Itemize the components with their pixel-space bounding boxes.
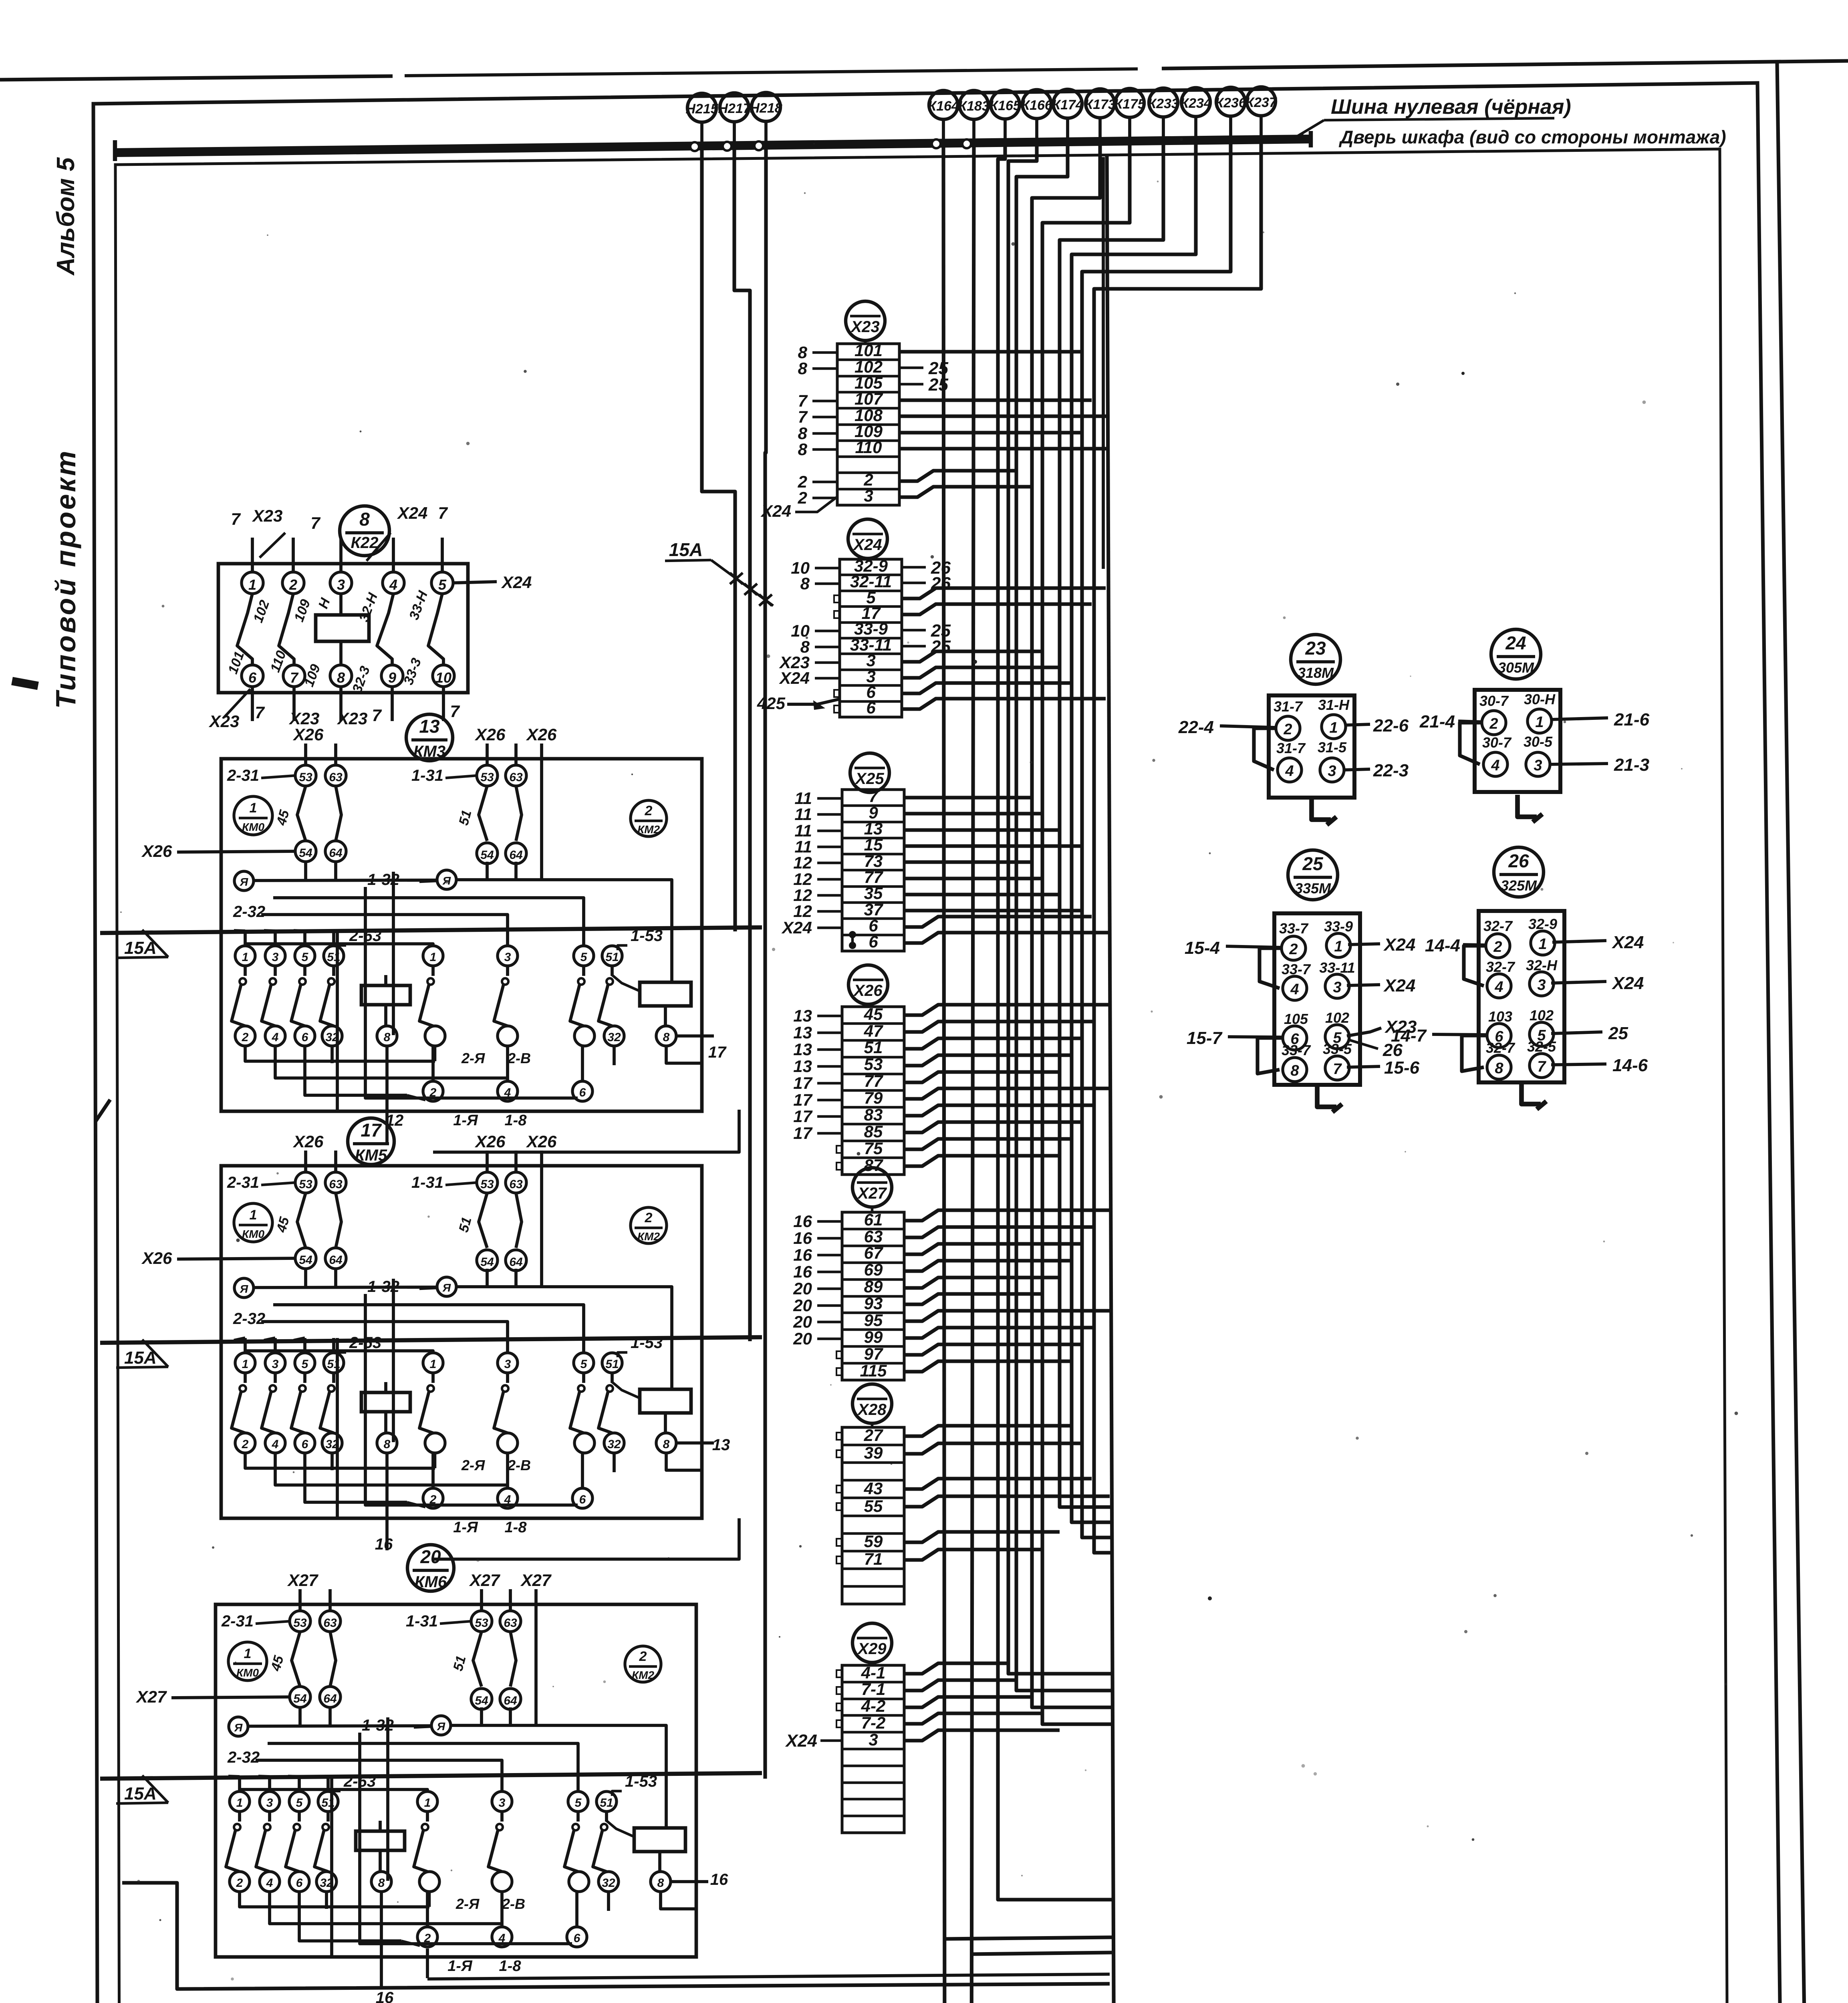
- svg-text:7: 7: [290, 669, 299, 686]
- svg-text:X26: X26: [475, 1132, 506, 1151]
- svg-text:К174: К174: [1052, 97, 1083, 113]
- wire trunk divider branch: [1102, 157, 1105, 569]
- terminal circle К233: [1149, 88, 1178, 117]
- terminal circle К237: [1247, 87, 1276, 116]
- svg-text:13: 13: [793, 1057, 812, 1076]
- svg-text:75: 75: [864, 1139, 883, 1158]
- X28 clamp mark: [836, 1485, 842, 1493]
- wire: [899, 487, 1032, 497]
- svg-text:1-8: 1-8: [499, 1958, 522, 1975]
- wire: [904, 844, 1082, 848]
- bus tap circle К164: [932, 139, 941, 148]
- svg-text:25: 25: [1608, 1024, 1628, 1043]
- connector 24 (305М): [1475, 690, 1560, 792]
- K22 contact diagonals: [237, 594, 252, 665]
- ground hook: [1517, 795, 1537, 817]
- X23 left cable label 2: [812, 481, 837, 484]
- svg-text:11: 11: [794, 805, 812, 824]
- X23 left cable label 8: [812, 367, 837, 370]
- X25 junction dots: [849, 931, 856, 938]
- svg-text:43: 43: [864, 1479, 883, 1498]
- paper edge right: [1777, 62, 1812, 2003]
- svg-text:32-7: 32-7: [1483, 918, 1513, 934]
- svg-text:16: 16: [793, 1212, 812, 1231]
- X27 left cable label 16: [817, 1237, 842, 1240]
- wire: [904, 796, 1032, 799]
- svg-text:3: 3: [869, 1730, 878, 1749]
- X29 clamp mark: [836, 1720, 842, 1727]
- bus right end tick: [1309, 131, 1313, 147]
- paper edge (top, partially dashed): [0, 76, 393, 80]
- svg-text:14-4: 14-4: [1425, 936, 1460, 955]
- X24 left cable label 10: [815, 630, 840, 633]
- svg-text:32-Н: 32-Н: [356, 590, 381, 624]
- terminal circle К166: [1022, 90, 1051, 119]
- connector 26 (325М): [1479, 911, 1564, 1082]
- svg-text:59: 59: [864, 1532, 883, 1551]
- svg-text:305М: 305М: [1498, 659, 1534, 676]
- wire: [899, 471, 1016, 481]
- wire: [904, 828, 1060, 832]
- svg-text:425: 425: [757, 694, 786, 713]
- svg-text:К164: К164: [928, 99, 959, 114]
- wire: [902, 604, 1092, 615]
- K22 contact 5: [431, 572, 453, 594]
- terminal strip X25 table: [842, 790, 904, 951]
- connector 26 leads: [1463, 945, 1486, 945]
- svg-text:КМ5: КМ5: [355, 1147, 387, 1164]
- svg-text:105: 105: [1284, 1011, 1308, 1027]
- terminal strip X25 designator: [850, 753, 889, 792]
- wire: [904, 1479, 1092, 1489]
- svg-text:33-7: 33-7: [1279, 920, 1309, 937]
- wire: [904, 1261, 1072, 1271]
- X26 clamp mark: [836, 1146, 842, 1153]
- X23 left cable label 2: [812, 497, 837, 500]
- margin tick mark: [12, 681, 38, 686]
- svg-text:32-7: 32-7: [1486, 959, 1515, 975]
- svg-text:7-1: 7-1: [861, 1680, 886, 1699]
- svg-text:X27: X27: [469, 1571, 500, 1590]
- svg-text:25: 25: [1302, 853, 1324, 874]
- svg-text:21-3: 21-3: [1614, 755, 1649, 775]
- svg-text:Альбом 5: Альбом 5: [52, 157, 80, 276]
- wire: [904, 1227, 1094, 1237]
- svg-text:X26: X26: [141, 842, 172, 860]
- svg-text:20: 20: [420, 1546, 441, 1567]
- svg-text:КМ3: КМ3: [413, 743, 445, 760]
- svg-text:9: 9: [388, 669, 396, 686]
- X24 right label 26: [902, 566, 926, 569]
- svg-text:Дверь шкафа (вид со стороны мо: Дверь шкафа (вид со стороны монтажа): [1338, 127, 1726, 147]
- svg-text:335М: 335М: [1295, 880, 1331, 897]
- X27 left cable label 16: [817, 1271, 842, 1274]
- svg-text:7: 7: [310, 514, 320, 532]
- svg-text:8: 8: [798, 440, 808, 459]
- wire: [899, 447, 1110, 450]
- svg-text:12: 12: [793, 902, 812, 921]
- wire К173 to bus: [1098, 118, 1102, 141]
- wire: [904, 1550, 1042, 1560]
- svg-text:95: 95: [864, 1311, 883, 1330]
- svg-text:15-4: 15-4: [1185, 938, 1220, 958]
- svg-text:X26: X26: [475, 725, 506, 744]
- svg-text:1: 1: [248, 576, 256, 593]
- X24 left cable label X23: [815, 661, 840, 664]
- svg-text:Н217: Н217: [718, 101, 751, 116]
- X26 left cable label 17: [817, 1099, 842, 1102]
- bus tap circle Н218: [754, 141, 763, 150]
- wire: [904, 1663, 1008, 1674]
- svg-text:6: 6: [869, 932, 878, 951]
- svg-text:X26: X26: [853, 982, 883, 999]
- svg-text:14-7: 14-7: [1391, 1026, 1427, 1046]
- bus tap circle К183: [962, 139, 971, 148]
- X26 clamp mark: [836, 1163, 842, 1170]
- wire: [904, 917, 1092, 927]
- svg-text:12: 12: [793, 853, 812, 872]
- wire К165 trunk: [998, 143, 1112, 1900]
- svg-text:71: 71: [864, 1550, 883, 1568]
- wire: [899, 414, 1110, 418]
- wire: [904, 1156, 1060, 1166]
- zero bus (Шина нулевая, чёрная): [115, 139, 1311, 153]
- X27 left cable label 20: [817, 1338, 842, 1340]
- K22 contact 4: [383, 572, 404, 594]
- svg-text:16: 16: [793, 1229, 812, 1247]
- wire: [904, 909, 1082, 912]
- svg-text:4: 4: [389, 576, 397, 593]
- svg-text:17: 17: [361, 1120, 382, 1141]
- svg-text:1-31: 1-31: [411, 1174, 443, 1191]
- terminal circle К174: [1053, 89, 1082, 118]
- svg-text:1-53: 1-53: [631, 1334, 663, 1352]
- wire К174 trunk: [1016, 142, 1112, 1691]
- svg-text:X28: X28: [857, 1401, 887, 1419]
- wire: [904, 1022, 1094, 1032]
- terminal circle К175: [1115, 89, 1144, 117]
- relay K22 block: [218, 564, 468, 693]
- wire КМ5 bottom link: [433, 1518, 739, 1559]
- svg-text:X24: X24: [1383, 976, 1415, 995]
- wire КМ3 bottom link: [433, 1110, 739, 1152]
- cabinet divider wall: [1107, 155, 1114, 2003]
- svg-text:51: 51: [864, 1038, 883, 1057]
- svg-text:79: 79: [864, 1088, 883, 1107]
- svg-text:89: 89: [864, 1277, 883, 1296]
- leader arrow to bus: [1294, 120, 1324, 138]
- svg-text:1-53: 1-53: [631, 927, 663, 945]
- svg-text:102: 102: [250, 598, 272, 625]
- 15А feed line КМ3: [100, 927, 762, 933]
- svg-text:77: 77: [864, 1072, 883, 1090]
- svg-text:6: 6: [866, 698, 876, 717]
- svg-text:К22: К22: [351, 534, 378, 552]
- wire К233 trunk: [1060, 141, 1163, 1507]
- wire: [904, 1426, 1072, 1436]
- wire К236 to bus: [1229, 116, 1232, 140]
- wire Н217 down, step, down to 15А line (КМ5): [734, 145, 750, 1341]
- wire: [904, 1139, 1072, 1149]
- X27 left cable label 16: [817, 1220, 842, 1223]
- X24 clamp mark: [834, 611, 840, 618]
- svg-text:13: 13: [793, 1006, 812, 1025]
- svg-text:102: 102: [1325, 1010, 1349, 1026]
- wire: [904, 1730, 1060, 1741]
- X29 clamp mark: [836, 1670, 842, 1677]
- svg-text:2: 2: [289, 576, 297, 593]
- svg-text:32-9: 32-9: [1528, 916, 1557, 932]
- X23 right label 25: [899, 367, 923, 369]
- svg-text:45: 45: [864, 1005, 883, 1024]
- connector 23 (318М): [1269, 695, 1354, 798]
- svg-text:102: 102: [1530, 1007, 1554, 1024]
- X27 clamp mark: [836, 1368, 842, 1375]
- X24 clamp mark: [834, 690, 840, 697]
- X27 left cable label 16: [817, 1254, 842, 1257]
- svg-text:17: 17: [793, 1124, 812, 1143]
- svg-text:К165: К165: [989, 98, 1021, 113]
- svg-text:X24: X24: [501, 573, 532, 592]
- connector 23 left bracket: [1254, 728, 1276, 770]
- svg-text:21-6: 21-6: [1614, 710, 1650, 729]
- K22 contact 3: [330, 572, 352, 594]
- wire: [902, 651, 1042, 662]
- svg-text:31-7: 31-7: [1274, 698, 1303, 715]
- КМ5 15А taps: [234, 1338, 245, 1340]
- X25 left cable label 11: [817, 813, 842, 816]
- svg-text:X24: X24: [1611, 933, 1644, 952]
- svg-text:X24: X24: [785, 1731, 817, 1751]
- terminal strip X27 table: [842, 1212, 904, 1380]
- svg-text:16: 16: [793, 1262, 812, 1281]
- K22 contact 8: [330, 665, 352, 687]
- wire: [904, 1278, 1060, 1288]
- svg-text:X23: X23: [850, 318, 879, 336]
- X24 left cable label X24: [815, 677, 840, 680]
- svg-text:22-3: 22-3: [1373, 761, 1409, 780]
- wire: [904, 1697, 1032, 1707]
- wire: [904, 1713, 1042, 1724]
- svg-text:110: 110: [855, 438, 882, 457]
- connector 24 leads: [1458, 721, 1482, 722]
- КМ6 bottom exit: [380, 1967, 383, 1989]
- wire: [904, 1038, 1082, 1049]
- K22 bottom leads: [251, 687, 254, 721]
- wire: [904, 860, 1032, 864]
- ground hook: [1312, 798, 1331, 820]
- connector 25 designator: [1288, 850, 1338, 900]
- svg-text:13: 13: [419, 716, 440, 737]
- wire К165 to bus: [1004, 119, 1007, 143]
- wire К174 to bus: [1066, 118, 1069, 142]
- svg-text:К233: К233: [1148, 96, 1179, 111]
- contactor block КМ5: [221, 1151, 702, 1528]
- X23 left cable label 8: [812, 432, 837, 435]
- svg-text:Н215: Н215: [685, 101, 718, 117]
- svg-text:20: 20: [793, 1329, 812, 1348]
- wire К237 trunk: [1094, 139, 1261, 1553]
- svg-text:33-5: 33-5: [1323, 1041, 1352, 1057]
- svg-text:2-В: 2-В: [507, 1050, 531, 1066]
- wire КМ6 lower bus: [426, 1949, 429, 1978]
- wire: [904, 1344, 1082, 1355]
- stray dot 3: [1208, 1596, 1212, 1600]
- terminal circle Н217: [720, 93, 749, 122]
- svg-text:X27: X27: [520, 1571, 552, 1590]
- svg-text:115: 115: [860, 1361, 887, 1380]
- designator circle 20/КМ6: [407, 1545, 454, 1591]
- svg-text:X24: X24: [1383, 935, 1415, 955]
- svg-text:20: 20: [793, 1279, 812, 1298]
- svg-text:20: 20: [793, 1312, 812, 1331]
- КМ3 15А taps: [234, 931, 245, 931]
- svg-text:32-7: 32-7: [1486, 1040, 1515, 1056]
- terminal strip X27 designator: [852, 1168, 892, 1207]
- svg-text:31-Н: 31-Н: [1318, 697, 1350, 713]
- X28 clamp mark: [836, 1556, 842, 1564]
- wire: [904, 812, 1042, 815]
- svg-text:87: 87: [864, 1156, 883, 1175]
- svg-text:7: 7: [438, 504, 448, 522]
- K22 contact 2: [282, 572, 304, 594]
- X29 clamp mark: [836, 1703, 842, 1711]
- wire К237 to bus: [1260, 116, 1263, 139]
- svg-text:63: 63: [864, 1227, 883, 1246]
- svg-text:1-53: 1-53: [625, 1773, 657, 1790]
- svg-text:26: 26: [1508, 850, 1529, 871]
- terminal circle Н218: [752, 93, 780, 121]
- terminal strip X24 table: [840, 559, 902, 717]
- connector 24 left bracket: [1460, 723, 1482, 764]
- cable cross mark: [759, 594, 772, 606]
- X24 right label 25: [902, 629, 926, 632]
- svg-text:15-7: 15-7: [1187, 1028, 1223, 1048]
- svg-text:4-2: 4-2: [861, 1697, 886, 1715]
- X24 clamp mark: [834, 705, 840, 713]
- X25 left cable label 12: [817, 894, 842, 897]
- svg-text:X27: X27: [287, 1571, 318, 1590]
- svg-text:2-53: 2-53: [349, 927, 381, 945]
- svg-text:X23: X23: [252, 506, 283, 525]
- svg-text:1-Я: 1-Я: [453, 1519, 478, 1536]
- K22 label X24 right: [453, 582, 497, 583]
- svg-text:3: 3: [337, 576, 345, 593]
- svg-text:7: 7: [372, 706, 382, 725]
- wire: [899, 398, 1092, 402]
- X24 right label 26: [902, 582, 926, 584]
- svg-text:30-7: 30-7: [1479, 693, 1509, 709]
- X24 left cable label 10: [815, 567, 840, 570]
- svg-text:15: 15: [864, 835, 883, 854]
- svg-text:17: 17: [793, 1074, 812, 1092]
- bus tap circle Н217: [723, 142, 732, 151]
- terminal strip X23 table: [837, 344, 899, 505]
- svg-text:15-6: 15-6: [1384, 1058, 1420, 1078]
- svg-text:16: 16: [376, 1989, 394, 2003]
- svg-text:7: 7: [255, 703, 265, 722]
- svg-text:17: 17: [793, 1090, 812, 1109]
- svg-text:X23: X23: [209, 712, 240, 731]
- svg-text:25: 25: [928, 375, 948, 395]
- svg-text:1-Я: 1-Я: [447, 1958, 473, 1975]
- wire Н218 down to 15А line (КМ6): [765, 145, 766, 1779]
- svg-text:8: 8: [798, 359, 808, 378]
- svg-text:7: 7: [869, 787, 879, 806]
- svg-text:Типовой проект: Типовой проект: [50, 449, 81, 709]
- svg-text:2-53: 2-53: [349, 1334, 381, 1352]
- wire lower horizontals near cabinet bottom: [945, 1937, 1112, 1939]
- svg-text:2: 2: [798, 488, 807, 507]
- svg-text:16: 16: [375, 1535, 393, 1553]
- svg-text:30-7: 30-7: [1482, 734, 1512, 751]
- svg-text:7: 7: [450, 702, 460, 721]
- X29 clamp mark: [836, 1687, 842, 1694]
- X28 clamp mark: [836, 1503, 842, 1510]
- wire: [904, 1443, 1082, 1454]
- svg-text:1-31: 1-31: [411, 767, 443, 784]
- connector 23 designator: [1291, 635, 1340, 684]
- X26 left cable label 13: [817, 1065, 842, 1068]
- svg-text:15А: 15А: [669, 539, 703, 560]
- svg-text:X24: X24: [397, 504, 428, 522]
- svg-text:35: 35: [864, 884, 883, 903]
- svg-text:51: 51: [456, 808, 474, 827]
- svg-text:33-11: 33-11: [1319, 959, 1355, 976]
- svg-text:2-Я: 2-Я: [461, 1457, 485, 1473]
- wire Н218 to bus: [764, 121, 768, 145]
- svg-text:21-4: 21-4: [1419, 712, 1455, 731]
- КМ5 bottom exit: [385, 1528, 389, 1550]
- relay K22 designator circle 8/К22: [340, 506, 389, 556]
- K22 top leads: [251, 538, 254, 572]
- terminal strip X29 table: [842, 1665, 904, 1833]
- svg-text:20: 20: [793, 1296, 812, 1315]
- svg-text:2-53: 2-53: [343, 1773, 376, 1790]
- X26 left cable label 13: [817, 1048, 842, 1051]
- svg-text:X24: X24: [852, 536, 882, 554]
- X24 left cable label 8: [815, 582, 840, 585]
- svg-text:1-31: 1-31: [406, 1612, 438, 1630]
- svg-text:X27: X27: [136, 1687, 167, 1706]
- ground hook: [1522, 1082, 1541, 1104]
- X24 clamp mark: [834, 595, 840, 603]
- svg-text:2-31: 2-31: [227, 1174, 259, 1191]
- connector 26 designator: [1494, 847, 1544, 897]
- wire: [904, 877, 1042, 880]
- svg-text:325М: 325М: [1501, 877, 1537, 894]
- svg-text:X25: X25: [854, 770, 884, 788]
- svg-text:7: 7: [798, 407, 808, 426]
- X23 left cable label 7: [812, 400, 837, 403]
- terminal strip X26 table: [842, 1007, 904, 1175]
- svg-text:85: 85: [864, 1122, 883, 1141]
- svg-text:8: 8: [337, 669, 345, 686]
- contactor block КМ6: [216, 1589, 696, 1967]
- terminal circle К236: [1216, 87, 1245, 116]
- designator circle 17/КМ5: [348, 1118, 394, 1165]
- svg-text:109: 109: [301, 662, 323, 689]
- X25 left cable label 12: [817, 910, 842, 913]
- X27 left cable label 20: [817, 1304, 842, 1307]
- svg-text:31-5: 31-5: [1318, 739, 1347, 756]
- connector 23 leads: [1220, 726, 1276, 727]
- terminal circle К173: [1086, 89, 1114, 118]
- svg-text:45: 45: [274, 808, 292, 827]
- wire К175 trunk: [1042, 141, 1130, 1724]
- wire: [904, 1055, 1072, 1066]
- stray dot 2: [1461, 372, 1465, 375]
